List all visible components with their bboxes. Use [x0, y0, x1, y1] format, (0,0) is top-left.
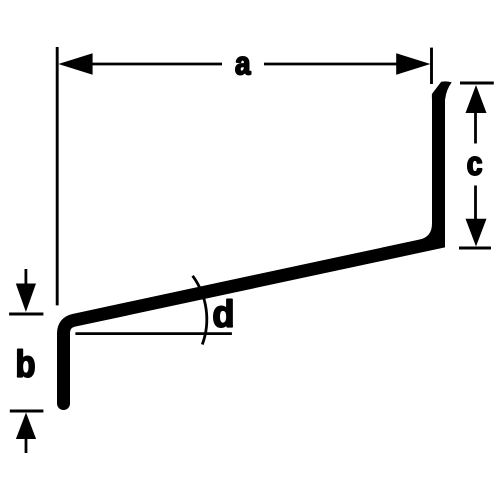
dimension c: upper stem	[474, 113, 477, 144]
dimension b: top tick	[9, 313, 43, 316]
dimension c: bottom tick	[459, 247, 491, 250]
dimension b: bottom stem	[25, 439, 28, 453]
label b	[18, 349, 34, 377]
dimension a: right extension line	[430, 48, 433, 84]
label c	[468, 157, 482, 175]
label d	[214, 299, 232, 327]
dimension b: bottom arrowhead (up)	[16, 413, 36, 440]
dimension c: lower stem	[474, 186, 477, 220]
dimension b: top stem	[24, 269, 27, 285]
angle d: arc	[193, 276, 207, 345]
label a	[236, 57, 251, 75]
dimension a: left extension line	[56, 47, 59, 305]
dimension b: top arrowhead (down)	[16, 284, 36, 313]
profile Z-section (window sill) main stroke	[64, 97, 439, 404]
profile right junction inner fillet filler	[420, 224, 436, 244]
dimension a: right arrowhead	[396, 53, 430, 75]
profile top drip-edge hook tip	[432, 81, 452, 99]
angle d: horizontal reference line	[75, 332, 232, 335]
dimension a: left arrowhead	[58, 53, 92, 75]
dimension a: line left segment	[88, 63, 222, 66]
dimension c: top tick	[460, 82, 494, 85]
dimension b: bottom tick	[10, 410, 44, 413]
dimension a: line right segment	[264, 63, 398, 66]
dimension c: top arrowhead (up)	[466, 85, 487, 113]
dimension c: bottom arrowhead (down)	[466, 219, 487, 247]
